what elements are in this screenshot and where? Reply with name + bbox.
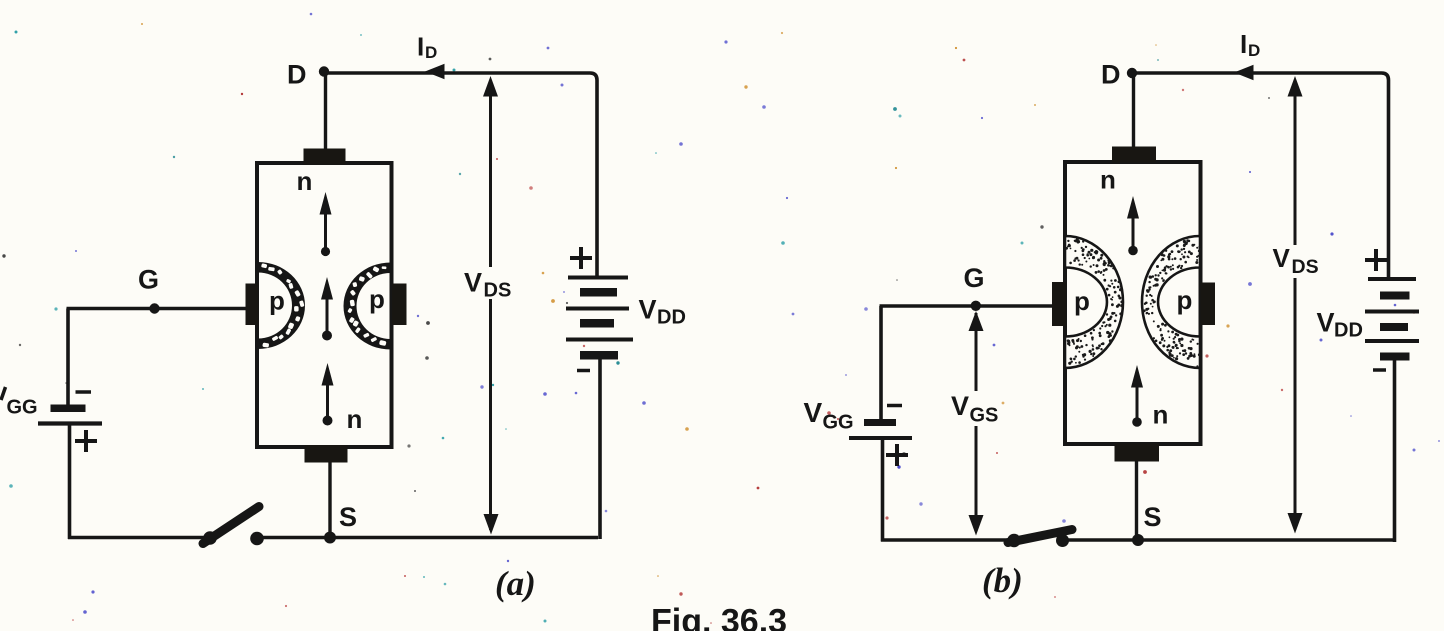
- label p left gate region (b): [1074, 286, 1090, 316]
- arrow: ID current direction (b): [1234, 65, 1254, 80]
- arrow: (a) channel current arrow top: [320, 192, 332, 256]
- battery VGG (b): positive long plate: [849, 436, 912, 440]
- svg-text:V: V: [1317, 308, 1335, 338]
- svg-text:n: n: [1100, 165, 1116, 195]
- label + terminal of VGG (a): [75, 430, 97, 452]
- svg-text:G: G: [964, 263, 985, 293]
- svg-text:Fig. 36.3: Fig. 36.3: [651, 603, 787, 631]
- wire: (a) VGG top lead: [66, 309, 70, 406]
- label VDS (b): [1273, 243, 1319, 278]
- svg-text:I: I: [417, 32, 424, 62]
- label VDS (a): [464, 268, 511, 302]
- label n top (a): [297, 166, 313, 196]
- wire: (b) bottom rail right section (switch contact to VDD branch): [1058, 538, 1396, 541]
- measurement arrow VDS (b) double-headed: [1288, 76, 1303, 534]
- battery VGG (b): negative short thick plate: [864, 419, 896, 426]
- JFET (b): source metal contact pad: [1115, 444, 1160, 462]
- JFET (a): right p-region depletion crescent: [344, 263, 391, 350]
- arrow: (a) channel current arrow bottom: [322, 363, 334, 426]
- label - terminal of VDD (b): [1373, 368, 1386, 372]
- label - terminal of VGG (b): [887, 404, 902, 408]
- node D (b) junction dot: [1127, 68, 1137, 78]
- node G (a): [149, 303, 159, 313]
- svg-text:p: p: [1177, 285, 1193, 315]
- wire: (b) gate wire from VGG to gate contact: [880, 304, 1054, 307]
- label + terminal of VGG (b): [886, 444, 908, 466]
- label n bottom (a): [347, 404, 363, 434]
- svg-text:D: D: [287, 60, 307, 90]
- wire: (b) drain lead from node D down to top contact: [1132, 73, 1135, 148]
- switch S2 (b): lever arm: [1008, 530, 1072, 543]
- JFET body (b): n-type bar: [1065, 162, 1201, 444]
- svg-text:n: n: [347, 404, 363, 434]
- switch S2 (b): pivot dot: [1007, 534, 1021, 548]
- label + terminal of VDD (a): [570, 247, 592, 269]
- wire: (a) bottom rail left section (VGG to switch): [68, 536, 207, 539]
- wire: (b) from battery VDD bottom down to bottom rail: [1393, 361, 1397, 543]
- wire: (b) VGG bottom lead down to bottom rail: [881, 438, 885, 542]
- switch S1 (a): lever arm: [203, 507, 259, 544]
- label VGG (a), V cut off at page edge: [1, 387, 38, 419]
- svg-text:(b): (b): [982, 561, 1023, 600]
- label p right gate region (a): [369, 284, 385, 314]
- label p right gate region (b): [1177, 285, 1193, 315]
- measurement arrow VGS (b) double-headed: [969, 311, 984, 536]
- wire: (b) VGG top lead: [879, 306, 883, 419]
- wire: (a) VGG bottom lead down to bottom rail: [68, 424, 72, 540]
- wire: (b) source lead from bottom contact to node S: [1135, 461, 1138, 540]
- label ID current (b): [1240, 29, 1260, 60]
- svg-text:V: V: [464, 268, 482, 298]
- label n top (b): [1100, 165, 1116, 195]
- JFET (b): right p-region depletion crescent (stippled): [1142, 236, 1201, 368]
- svg-text:GS: GS: [970, 405, 999, 427]
- svg-text:G: G: [138, 265, 159, 295]
- JFET (a): left gate metal contact pad: [246, 284, 259, 326]
- JFET (a): left p-region depletion crescent: [258, 262, 305, 349]
- battery VDD (b): plates: [1365, 279, 1419, 361]
- node D (a) junction dot: [319, 66, 329, 76]
- measurement arrow VDS (a) double-headed: [483, 76, 499, 535]
- svg-text:GG: GG: [823, 412, 854, 434]
- svg-text:S: S: [1144, 502, 1162, 532]
- svg-text:V: V: [639, 295, 657, 325]
- label VDD (a): [639, 295, 686, 329]
- wire: (a) from battery VDD bottom down to bottom rail: [598, 360, 602, 540]
- battery VGG (a): positive long plate: [38, 421, 102, 425]
- svg-text:p: p: [1074, 286, 1090, 316]
- label ID current (a): [417, 32, 437, 63]
- wire: (a) source lead from bottom contact to node S: [328, 461, 331, 538]
- label G (b): [964, 263, 985, 293]
- svg-text:n: n: [1153, 400, 1169, 430]
- label VGG (b): [804, 397, 854, 434]
- svg-text:D: D: [425, 43, 437, 62]
- arrow: (a) channel current arrow middle: [321, 277, 333, 341]
- svg-text:DD: DD: [1334, 320, 1363, 342]
- label n bottom (b): [1153, 400, 1169, 430]
- arrow: ID current direction (a): [425, 64, 445, 79]
- wire: (a) drain lead from node D down to top contact: [324, 73, 327, 150]
- JFET (b): left gate metal contact pad: [1052, 282, 1066, 326]
- switch S1 (a): open contact dot: [250, 532, 264, 546]
- label D (b): [1101, 60, 1121, 90]
- svg-text:(a): (a): [495, 564, 536, 603]
- wire: (a) drain top wire from node D to top-right corner: [324, 73, 597, 277]
- battery VGG (a): negative short thick plate: [51, 405, 86, 413]
- svg-text:D: D: [1248, 41, 1260, 60]
- svg-text:n: n: [297, 166, 313, 196]
- arrow: (b) channel current arrow bottom: [1131, 365, 1143, 427]
- switch S2 (b): open contact dot: [1056, 534, 1069, 547]
- label VGS (b): [951, 391, 998, 427]
- svg-text:p: p: [369, 284, 385, 314]
- JFET (a): right gate metal contact pad: [392, 284, 407, 326]
- svg-text:DD: DD: [657, 307, 686, 329]
- label S (b): [1144, 502, 1162, 532]
- JFET (b): drain metal contact pad: [1112, 147, 1156, 163]
- label + terminal of VDD (b): [1365, 249, 1387, 271]
- svg-text:V: V: [951, 391, 969, 421]
- battery VDD (a): plates: [566, 278, 633, 360]
- svg-text:V: V: [804, 397, 823, 428]
- node S (b): [1132, 534, 1144, 546]
- JFET body (a): n-type bar: [257, 163, 392, 447]
- svg-text:GG: GG: [7, 397, 38, 419]
- svg-text:V: V: [1273, 243, 1291, 273]
- node G (b): [971, 301, 981, 311]
- svg-text:I: I: [1240, 29, 1247, 59]
- svg-text:DS: DS: [1292, 256, 1319, 278]
- label p left gate region (a): [269, 286, 285, 316]
- JFET (b): right gate metal contact pad: [1201, 283, 1216, 326]
- label D (a): [287, 60, 307, 90]
- svg-text:D: D: [1101, 60, 1121, 90]
- wire: (a) bottom rail right section (switch contact to VDD branch): [252, 536, 598, 539]
- label (b) sub-figure: [982, 561, 1023, 600]
- label VDD (b): [1317, 308, 1363, 342]
- svg-text:S: S: [339, 502, 357, 532]
- JFET (b): left p-region depletion crescent (stippled): [1065, 236, 1123, 368]
- label - terminal of VGG (a): [76, 390, 92, 394]
- label - terminal of VDD (a): [577, 369, 590, 373]
- wire: (b) bottom rail left section (VGG to switch): [881, 538, 1010, 541]
- switch S1 (a): pivot dot: [203, 531, 217, 545]
- JFET (a): drain metal contact pad: [304, 149, 346, 165]
- arrow: (b) channel current arrow top: [1127, 196, 1139, 255]
- node S (a): [324, 532, 336, 544]
- svg-text:DS: DS: [484, 280, 512, 302]
- label S (a): [339, 502, 357, 532]
- label G (a): [138, 265, 159, 295]
- JFET (a): source metal contact pad: [305, 445, 348, 463]
- wire: (b) drain top wire from node D to top-right corner: [1132, 73, 1389, 278]
- label (a) sub-figure: [495, 564, 536, 603]
- label Fig. 36.3 caption: [651, 603, 787, 631]
- wire: (a) gate wire from VGG to gate contact: [67, 307, 247, 310]
- svg-text:p: p: [269, 286, 285, 316]
